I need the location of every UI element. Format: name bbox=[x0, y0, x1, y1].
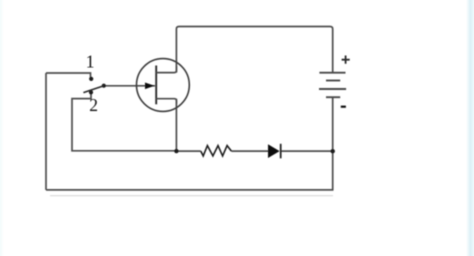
junction node at diode/battery bbox=[331, 149, 335, 153]
switch SW1 blade bbox=[83, 86, 103, 93]
wire: source down to junction bbox=[175, 99, 177, 151]
wire: switch throw 2 stub and inner loop bbox=[72, 94, 176, 151]
transistor Q1 circle body bbox=[137, 59, 190, 112]
junction node at source/resistor bbox=[174, 149, 178, 153]
wire: top rail from drain to battery bbox=[176, 27, 332, 73]
battery minus sign bbox=[341, 106, 346, 108]
battery BT1 plate short bottom bbox=[326, 96, 340, 98]
wire: junction to resistor bbox=[176, 150, 200, 152]
wire: diode to right junction bbox=[281, 150, 333, 152]
switch SW1 throw contact 1 bbox=[89, 77, 93, 81]
svg-text:1: 1 bbox=[86, 51, 95, 71]
transistor Q1 channel bar bbox=[155, 66, 157, 105]
diode D1 cathode bar bbox=[280, 144, 282, 159]
svg-text:2: 2 bbox=[89, 95, 98, 115]
wire: bottom rail bbox=[46, 189, 334, 191]
resistor R1 zigzag bbox=[201, 146, 232, 156]
transistor Q1 gate arrow bbox=[145, 83, 155, 90]
transistor Q1 source tap bbox=[156, 99, 176, 104]
wire: resistor to diode bbox=[231, 150, 268, 152]
switch SW1 throw contact 2 bbox=[89, 90, 93, 94]
battery BT1 plate short bbox=[326, 80, 340, 82]
wire: left rail bbox=[45, 73, 47, 190]
battery BT1 plate long top bbox=[319, 72, 345, 74]
diode D1 anode triangle bbox=[268, 144, 280, 158]
switch SW1 common pole contact bbox=[102, 84, 106, 88]
transistor Q1 drain tap bbox=[156, 66, 176, 73]
battery BT1 plate long bbox=[319, 88, 346, 90]
wire: battery bottom to junction and down to bottom rail bbox=[332, 97, 334, 190]
battery plus sign bbox=[342, 56, 350, 64]
wire: top-left feed to switch throw 1 bbox=[46, 73, 91, 77]
wire: gate wire from switch common bbox=[105, 85, 155, 87]
wire: bottom rail shadow echo bbox=[50, 195, 333, 197]
